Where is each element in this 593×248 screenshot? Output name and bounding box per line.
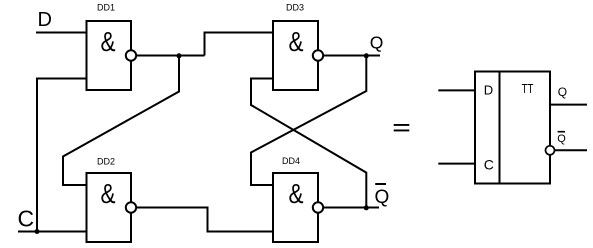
- wire DD4 output to notQ: [323, 207, 379, 209]
- wire U1 notQ output: [555, 149, 588, 151]
- junction on DD1 output: [177, 53, 182, 58]
- svg-text:&: &: [289, 26, 304, 57]
- wire Q feedback diagonal to DD4 pin 1: [251, 56, 366, 185]
- gate DD1 (NAND): [87, 3, 137, 91]
- svg-text:Q: Q: [370, 33, 384, 53]
- svg-text:Q: Q: [375, 187, 390, 208]
- gate DD2 (NAND): [87, 157, 137, 243]
- wire step up to DD3 pin 1: [205, 33, 274, 56]
- svg-text:DD3: DD3: [286, 3, 304, 13]
- svg-text:Q: Q: [558, 85, 567, 99]
- pin label notQ on U1: [557, 132, 566, 145]
- wire DD1 output to step: [136, 55, 204, 57]
- gate DD3 (NAND): [273, 3, 323, 91]
- svg-text:DD4: DD4: [282, 156, 300, 166]
- junction on C wire: [35, 229, 40, 234]
- inversion bubble on U1 notQ: [546, 146, 555, 155]
- flip-flop U1 (equivalent symbol): [475, 72, 550, 184]
- wire D input to DD1 pin 1: [36, 32, 87, 34]
- svg-text:D: D: [484, 83, 493, 98]
- wire DD2 output to DD4 pin 2: [136, 208, 273, 232]
- wire U1 C input: [438, 163, 475, 165]
- svg-text:&: &: [101, 178, 116, 209]
- wire C input to DD2 pin 2: [18, 231, 87, 233]
- wire C up to DD1 pin 2: [37, 79, 87, 232]
- junction node notQ: [364, 205, 369, 210]
- svg-text:&: &: [101, 26, 116, 57]
- svg-text:C: C: [484, 156, 494, 172]
- wire DD3 pin 2 from notQ feedback: [251, 79, 366, 208]
- svg-text:TT: TT: [522, 82, 534, 96]
- junction node Q: [364, 53, 369, 58]
- svg-text:D: D: [38, 9, 52, 31]
- node notQ (output label): [375, 184, 390, 208]
- gate DD4 (NAND): [273, 156, 323, 242]
- wire U1 Q output: [550, 104, 587, 106]
- equals sign: [394, 124, 410, 131]
- svg-text:&: &: [289, 178, 304, 209]
- wire DD1 junction diagonal down to DD2 pin 1: [63, 56, 179, 185]
- svg-text:C: C: [18, 206, 35, 232]
- svg-text:DD1: DD1: [97, 3, 115, 13]
- svg-text:DD2: DD2: [97, 157, 115, 167]
- wire DD3 output to Q: [323, 55, 380, 57]
- svg-text:Q: Q: [557, 133, 566, 145]
- wire U1 D input: [438, 89, 475, 91]
